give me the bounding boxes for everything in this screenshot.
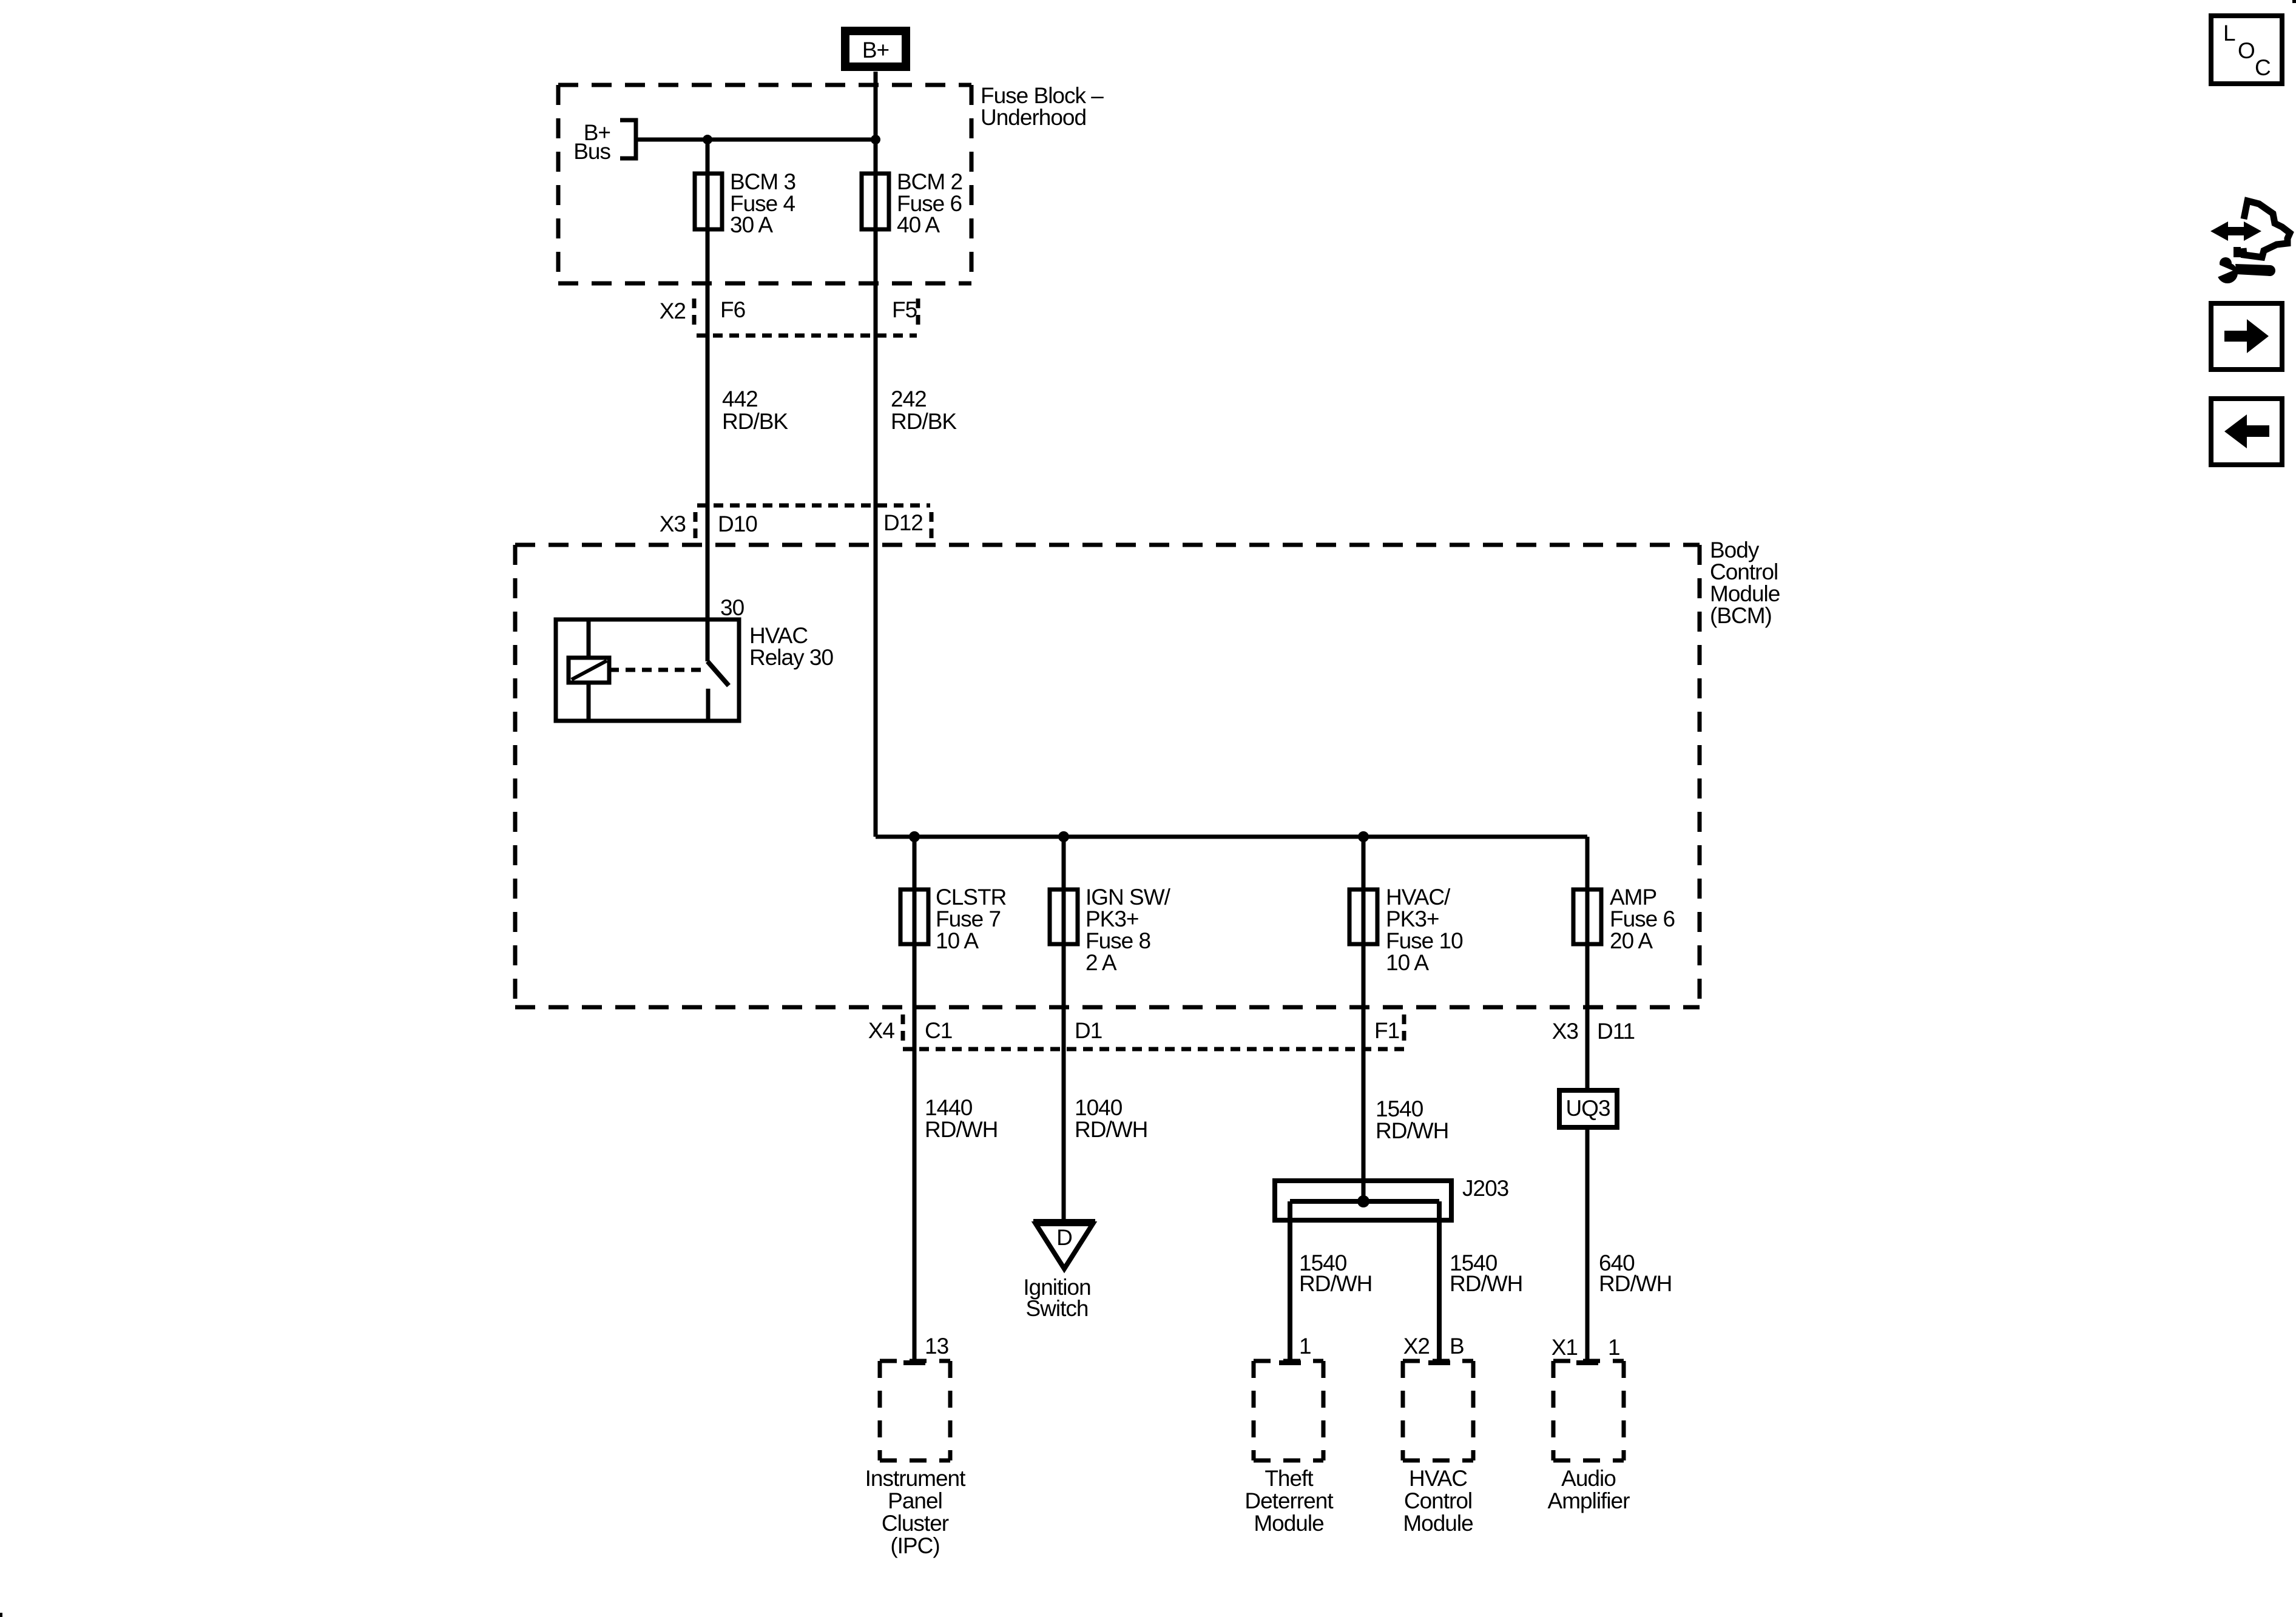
svg-text:X4: X4 [868, 1018, 895, 1043]
wire AMP branch [1585, 837, 1590, 1361]
svg-text:Fuse Block –: Fuse Block – [981, 83, 1104, 108]
svg-text:Module: Module [1710, 581, 1780, 606]
wire J203 to HVAC Control Module [1437, 1201, 1442, 1361]
svg-text:B: B [1450, 1334, 1464, 1359]
svg-text:X3: X3 [1552, 1019, 1578, 1044]
svg-text:RD/WH: RD/WH [1075, 1117, 1147, 1142]
svg-text:X1: X1 [1551, 1335, 1578, 1360]
B+ Bus terminal [620, 120, 636, 158]
splice pack J203 [1275, 1181, 1451, 1220]
fuse HVAC/PK3+ Fuse 10 10A [1349, 890, 1377, 944]
svg-text:BCM 3: BCM 3 [730, 169, 795, 194]
svg-text:Amplifier: Amplifier [1548, 1488, 1630, 1513]
service doodle outline [2243, 201, 2290, 257]
svg-text:B+: B+ [862, 38, 889, 62]
fuse BCM 3 Fuse 4 30A [695, 174, 722, 229]
wire B+ bus horizontal [636, 138, 876, 142]
nav icon back arrow box [2211, 399, 2282, 465]
node junction on bus (right) [871, 135, 880, 144]
wire IGN branch [1062, 837, 1066, 1222]
svg-text:(IPC): (IPC) [890, 1533, 939, 1558]
fuse CLSTR Fuse 7 10A [900, 890, 928, 944]
svg-text:RD/WH: RD/WH [1450, 1271, 1522, 1296]
svg-text:C: C [2255, 55, 2271, 80]
svg-text:Underhood: Underhood [981, 105, 1086, 130]
svg-text:D: D [1056, 1225, 1072, 1250]
svg-text:Cluster: Cluster [882, 1511, 949, 1536]
svg-text:Panel: Panel [888, 1488, 942, 1513]
svg-text:C1: C1 [925, 1018, 952, 1043]
nav icon next arrow box [2211, 303, 2282, 370]
wire B+ to fuse block and BCM (main vertical) [874, 72, 878, 837]
svg-text:Fuse 6: Fuse 6 [1610, 906, 1675, 931]
Body Control Module dashed box [515, 545, 1700, 1007]
svg-text:IGN SW/: IGN SW/ [1086, 885, 1171, 910]
svg-text:Bus: Bus [573, 139, 610, 164]
module box Instrument Panel Cluster [880, 1361, 950, 1460]
module box Audio Amplifier [1553, 1361, 1624, 1460]
svg-text:PK3+: PK3+ [1086, 906, 1139, 931]
module box Theft Deterrent Module [1254, 1361, 1323, 1460]
service doodle outline tab [2234, 247, 2241, 257]
svg-text:Relay 30: Relay 30 [749, 645, 833, 670]
service doodle double arrow [2210, 221, 2261, 241]
svg-text:PK3+: PK3+ [1386, 906, 1439, 931]
svg-text:D11: D11 [1597, 1019, 1635, 1044]
fuse AMP Fuse 6 20A [1573, 890, 1601, 944]
svg-text:RD/WH: RD/WH [1299, 1271, 1372, 1296]
svg-text:Fuse 8: Fuse 8 [1086, 928, 1150, 953]
svg-text:1040: 1040 [1075, 1095, 1123, 1120]
svg-text:X2: X2 [660, 299, 686, 323]
wire J203 to Theft Deterrent Module [1288, 1201, 1292, 1361]
relay HVAC Relay 30 [556, 619, 739, 721]
wire end tick audio [1576, 1360, 1598, 1365]
svg-text:F5: F5 [892, 297, 917, 322]
svg-text:1540: 1540 [1376, 1096, 1423, 1121]
svg-text:242: 242 [891, 387, 927, 411]
battery feed B+ terminal box [845, 31, 906, 67]
Fuse Block - Underhood dashed box [558, 85, 971, 283]
svg-text:30: 30 [720, 595, 745, 620]
svg-text:F1: F1 [1374, 1018, 1399, 1043]
ignition switch terminal D triangle [1033, 1221, 1095, 1269]
svg-text:O: O [2238, 38, 2255, 63]
svg-text:Control: Control [1710, 559, 1778, 584]
svg-text:1: 1 [1299, 1334, 1311, 1359]
svg-text:HVAC: HVAC [1409, 1466, 1467, 1491]
svg-text:AMP: AMP [1610, 885, 1656, 910]
svg-text:RD/WH: RD/WH [925, 1117, 998, 1142]
LOC legend box [2211, 16, 2282, 84]
svg-text:HVAC: HVAC [749, 623, 808, 648]
svg-text:BCM 2: BCM 2 [897, 169, 962, 194]
svg-text:(BCM): (BCM) [1710, 603, 1772, 628]
svg-text:CLSTR: CLSTR [936, 885, 1006, 910]
svg-text:13: 13 [925, 1334, 948, 1359]
svg-text:Fuse 10: Fuse 10 [1386, 928, 1463, 953]
wire end tick theft [1279, 1360, 1301, 1365]
svg-text:Module: Module [1254, 1511, 1323, 1536]
svg-text:Deterrent: Deterrent [1244, 1488, 1334, 1513]
svg-text:J203: J203 [1462, 1176, 1508, 1201]
fuse BCM 2 Fuse 6 40A [862, 174, 889, 229]
node junction on bus (left) [703, 135, 712, 144]
wire end tick hvac [1428, 1360, 1450, 1365]
svg-text:Fuse 7: Fuse 7 [936, 906, 1001, 931]
page corner mark bottom left [0, 1613, 2, 1617]
svg-text:D1: D1 [1075, 1018, 1102, 1043]
svg-text:442: 442 [722, 387, 758, 411]
connector X4 row (C1 D1 F1) [903, 1014, 1404, 1049]
svg-text:Module: Module [1403, 1511, 1473, 1536]
module box HVAC Control Module [1403, 1361, 1473, 1460]
svg-text:Audio: Audio [1561, 1466, 1616, 1491]
fuse IGN SW/PK3+ Fuse 8 2A [1050, 890, 1078, 944]
node junction IGN [1058, 831, 1069, 842]
svg-text:Theft: Theft [1264, 1466, 1314, 1491]
svg-text:RD/WH: RD/WH [1376, 1118, 1448, 1143]
svg-text:D12: D12 [883, 510, 923, 535]
wire end tick IPC [903, 1360, 925, 1365]
svg-text:UQ3: UQ3 [1565, 1096, 1610, 1121]
svg-text:30 A: 30 A [730, 212, 773, 237]
svg-text:Body: Body [1710, 538, 1760, 562]
svg-text:2 A: 2 A [1086, 950, 1117, 975]
connector X2 row (F6 F5) [694, 299, 918, 336]
svg-text:Switch: Switch [1026, 1296, 1089, 1321]
svg-text:40 A: 40 A [897, 212, 940, 237]
option box UQ3 [1559, 1090, 1617, 1127]
svg-text:HVAC/: HVAC/ [1386, 885, 1451, 910]
node junction HVAC [1358, 831, 1369, 842]
svg-text:10 A: 10 A [1386, 950, 1429, 975]
svg-text:10 A: 10 A [936, 928, 979, 953]
page corner mark top right [2292, 0, 2296, 3]
svg-text:RD/BK: RD/BK [891, 409, 957, 434]
svg-text:D10: D10 [718, 511, 757, 536]
svg-text:X2: X2 [1403, 1334, 1430, 1359]
connector X3 row (D10 D12) [695, 505, 931, 539]
service doodle wrench handle [2235, 264, 2271, 276]
svg-text:1440: 1440 [925, 1095, 973, 1120]
wire CLSTR branch [913, 837, 917, 1361]
svg-text:RD/BK: RD/BK [722, 409, 788, 434]
svg-text:X3: X3 [660, 511, 686, 536]
svg-text:Instrument: Instrument [865, 1466, 967, 1491]
svg-text:L: L [2223, 21, 2235, 46]
service doodle wrench head [2217, 263, 2238, 283]
wire bus inside BCM [876, 835, 1587, 839]
node junction CLSTR [909, 831, 920, 842]
wire HVAC branch [1362, 837, 1366, 1201]
svg-text:1: 1 [1608, 1335, 1620, 1360]
svg-text:F6: F6 [720, 297, 745, 322]
svg-text:Control: Control [1404, 1488, 1472, 1513]
svg-text:RD/WH: RD/WH [1599, 1271, 1672, 1296]
wire from bus through BCM3 fuse down to relay [706, 140, 710, 619]
svg-text:20 A: 20 A [1610, 928, 1653, 953]
